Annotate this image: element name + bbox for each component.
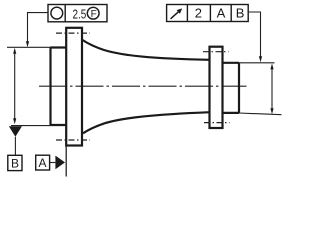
- dimension arrowhead up: [270, 63, 273, 69]
- free state circled F: [87, 7, 99, 19]
- taper bottom curve: [83, 112, 210, 133]
- svg-text:F: F: [91, 9, 97, 20]
- right bottom extension line: [239, 113, 282, 115]
- left bottom extension line: [11, 125, 51, 127]
- svg-text:A: A: [39, 156, 47, 170]
- circularity symbol: [51, 7, 63, 19]
- datum A extension line (flange face extended): [65, 146, 67, 177]
- feature control frame: circular runout 2 A B: [167, 5, 249, 22]
- dimension arrowhead down: [270, 108, 273, 114]
- leader from runout frame: [248, 12, 260, 57]
- runout symbol arrow: [171, 12, 179, 19]
- svg-text:A: A: [217, 6, 226, 21]
- svg-text:B: B: [11, 156, 19, 170]
- svg-text:2.5: 2.5: [73, 6, 87, 21]
- datum B box: [8, 155, 22, 170]
- datum B triangle: [9, 126, 22, 137]
- right diameter dimension line: [271, 69, 273, 109]
- datum A box: [36, 155, 50, 170]
- leader from circularity frame: [28, 13, 49, 42]
- leader arrowhead: [259, 56, 262, 62]
- left flange bottom dash-dot mark: [56, 139, 90, 141]
- left flange top dash-dot mark: [56, 32, 90, 34]
- right cylinder outline: [223, 63, 240, 113]
- left flange outline: [66, 28, 82, 146]
- left top extension line: [7, 46, 51, 48]
- dimension arrowhead down: [13, 118, 16, 124]
- datum A leader: [50, 162, 56, 164]
- right flange bottom dash-dot mark: [204, 122, 230, 124]
- left diameter dimension line: [14, 53, 16, 119]
- right top extension line: [239, 62, 275, 64]
- taper top curve: [83, 40, 210, 60]
- svg-text:B: B: [236, 6, 245, 21]
- left cylinder outline: [51, 48, 67, 126]
- right flange top dash-dot mark: [203, 51, 229, 53]
- right flange outline: [210, 47, 223, 128]
- leader arrowhead: [26, 41, 29, 47]
- datum A triangle: [55, 156, 65, 170]
- datum B connector: [14, 137, 16, 156]
- feature control frame: circularity 2.5 (F): [48, 5, 107, 22]
- centre line of part: [39, 85, 247, 87]
- svg-text:2: 2: [195, 6, 202, 21]
- dimension arrowhead up: [13, 48, 16, 54]
